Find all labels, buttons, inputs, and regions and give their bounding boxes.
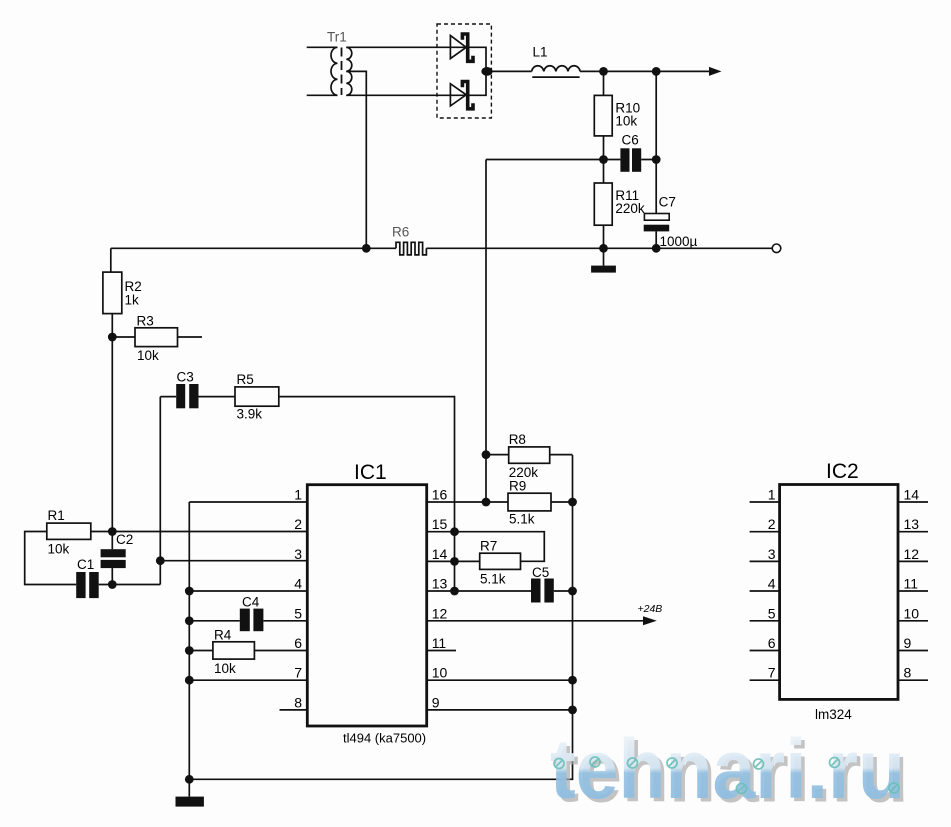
- svg-text:3.9k: 3.9k: [237, 407, 263, 422]
- svg-text:10k: 10k: [137, 348, 159, 363]
- svg-text:R5: R5: [237, 372, 254, 387]
- svg-text:R3: R3: [137, 314, 154, 329]
- svg-text:3: 3: [768, 546, 776, 562]
- svg-text:7: 7: [768, 665, 776, 681]
- svg-text:12: 12: [432, 605, 448, 621]
- svg-text:13: 13: [904, 516, 920, 532]
- svg-text:10: 10: [904, 605, 920, 621]
- svg-text:5.1k: 5.1k: [480, 572, 506, 587]
- svg-text:16: 16: [432, 487, 448, 503]
- svg-text:12: 12: [904, 546, 920, 562]
- svg-text:7: 7: [294, 665, 302, 681]
- svg-text:8: 8: [294, 694, 302, 710]
- svg-text:5: 5: [294, 605, 302, 621]
- svg-text:5: 5: [768, 605, 776, 621]
- svg-text:R9: R9: [509, 479, 526, 494]
- svg-text:4: 4: [294, 576, 302, 592]
- svg-text:10k: 10k: [615, 114, 637, 129]
- svg-text:tl494 (ka7500): tl494 (ka7500): [343, 731, 426, 746]
- svg-text:C5: C5: [532, 565, 549, 580]
- svg-text:9: 9: [904, 635, 912, 651]
- svg-text:C4: C4: [242, 595, 260, 610]
- svg-text:10k: 10k: [214, 661, 236, 676]
- svg-text:13: 13: [432, 576, 448, 592]
- svg-text:1k: 1k: [125, 293, 140, 308]
- svg-text:3: 3: [294, 546, 302, 562]
- svg-text:R4: R4: [214, 628, 232, 643]
- svg-text:10: 10: [432, 665, 448, 681]
- svg-text:IC2: IC2: [826, 460, 859, 483]
- svg-text:5.1k: 5.1k: [509, 512, 535, 527]
- svg-text:11: 11: [432, 635, 447, 651]
- svg-text:6: 6: [768, 635, 776, 651]
- svg-text:9: 9: [432, 694, 440, 710]
- svg-text:6: 6: [294, 635, 302, 651]
- svg-text:C7: C7: [659, 195, 676, 210]
- svg-text:14: 14: [904, 487, 920, 503]
- svg-text:L1: L1: [533, 45, 548, 60]
- svg-text:IC1: IC1: [354, 461, 387, 484]
- svg-text:11: 11: [904, 576, 919, 592]
- svg-text:8: 8: [904, 665, 912, 681]
- svg-text:C3: C3: [177, 370, 194, 385]
- svg-text:1000µ: 1000µ: [660, 234, 698, 249]
- svg-text:tehnari.ru: tehnari.ru: [550, 722, 905, 816]
- svg-text:4: 4: [768, 576, 776, 592]
- svg-text:C2: C2: [116, 532, 133, 547]
- svg-text:1: 1: [768, 487, 776, 503]
- svg-text:10k: 10k: [48, 542, 70, 557]
- svg-text:2: 2: [294, 516, 302, 532]
- svg-text:R7: R7: [480, 539, 497, 554]
- svg-text:R6: R6: [392, 225, 409, 240]
- svg-text:2: 2: [768, 516, 776, 532]
- svg-text:1: 1: [294, 487, 302, 503]
- svg-text:lm324: lm324: [815, 707, 852, 722]
- svg-text:Tr1: Tr1: [327, 30, 347, 45]
- svg-text:C6: C6: [622, 133, 639, 148]
- svg-text:15: 15: [432, 516, 448, 532]
- svg-text:R1: R1: [48, 508, 65, 523]
- svg-text:C1: C1: [77, 557, 94, 572]
- svg-text:220k: 220k: [615, 201, 645, 216]
- svg-text:14: 14: [432, 546, 448, 562]
- svg-text:R8: R8: [509, 432, 526, 447]
- svg-text:+24В: +24В: [638, 603, 663, 615]
